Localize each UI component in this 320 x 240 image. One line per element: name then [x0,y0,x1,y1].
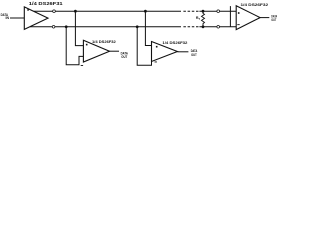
op-amp U2b receiver triangle 1/4 DS26F32 [152,42,178,62]
node: connector circle top-right [217,10,220,13]
svg-text:1/4 DS26F32: 1/4 DS26F32 [92,39,117,44]
wire: receiver U2a upper input tap from line A [75,11,83,45]
node: junction dot line B tap U2a [65,25,68,28]
wire: receiver U2a lower input tap from line B [66,27,83,65]
node: junction dot line B tap U2b [136,25,139,28]
node: minus mark U2b [155,61,157,64]
svg-text:1/4 DS26F31: 1/4 DS26F31 [29,1,63,6]
wire: bottom differential line B [30,26,181,28]
wire: top line dashed break [183,10,199,12]
svg-text:1/4 DS26F32: 1/4 DS26F32 [162,40,188,45]
wire: bus continuation bar [229,6,231,27]
wire: bottom line after break to receiver U3 [199,26,236,28]
op-amp U1 driver triangle 1/4 DS26F31 [24,7,48,30]
node: junction dot line A tap U2a [74,10,77,13]
svg-text:OUT: OUT [271,18,277,22]
node: minus mark U2a [81,64,83,67]
node: connector circle bottom-right [217,26,220,29]
op-amp U2a receiver triangle 1/4 DS26F32 [83,40,109,62]
wire: top differential line A [30,11,236,27]
wire: top line after break to receiver U3 [199,10,236,12]
wire: U2a output lead [110,50,120,52]
wire: U2b output lead [177,51,188,53]
node: plus mark U2b [156,46,158,48]
node: junction dot line A tap U2b [144,10,147,13]
node: junction dot RT bottom [202,25,205,28]
wire: driver input lead [10,17,24,19]
node: plus mark U2a [86,44,88,46]
node: plus mark U3 [238,12,240,14]
resistor RT termination zigzag [202,11,205,27]
svg-text:OUT: OUT [191,53,197,57]
node: junction dot RT top [202,10,205,13]
wire: bottom line dashed break [183,26,199,28]
svg-text:OUT: OUT [121,55,128,59]
wire: receiver U2b upper input tap from line A [145,11,151,45]
node: driver interior pin dot [27,9,29,11]
wire: receiver U2b lower input tap from line B [137,27,151,65]
node: connector circle bottom-left [52,26,55,29]
wire: U3 output lead [260,17,269,19]
svg-text:1/4 DS26F32: 1/4 DS26F32 [241,2,270,7]
node: connector circle top-left [53,10,56,13]
node: minus mark U3 [237,23,239,26]
op-amp U3 end receiver triangle 1/4 DS26F32 [236,6,260,30]
svg-text:IN: IN [6,16,10,20]
